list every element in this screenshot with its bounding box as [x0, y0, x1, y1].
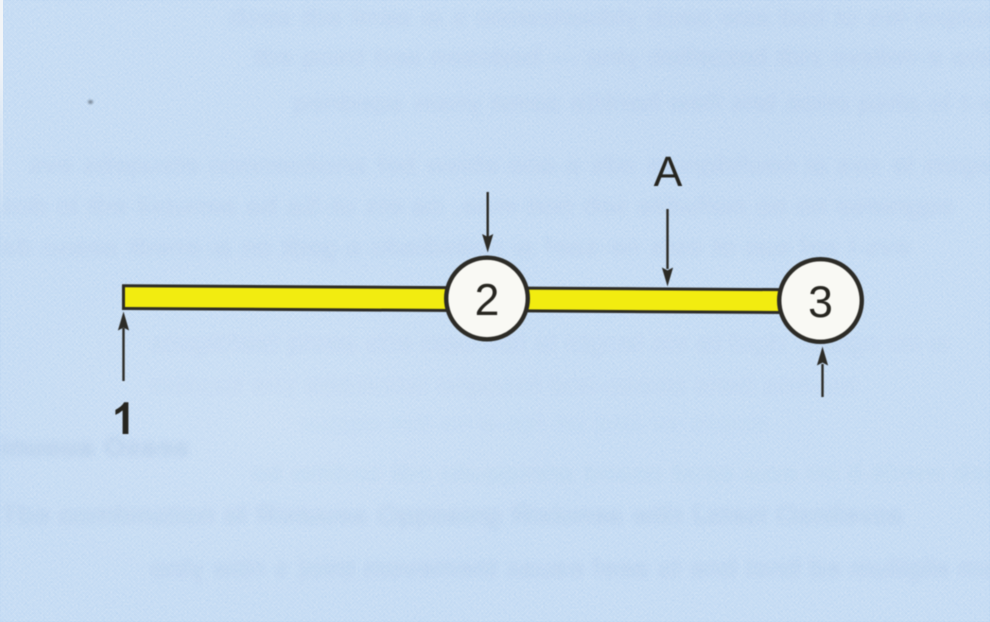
- beam (yellow bar): [124, 286, 821, 313]
- node 3 circle: [779, 259, 862, 342]
- arrow at support 1 (pointing up to left end of beam): [122, 328, 124, 381]
- arrow at support 3 (pointing up to bottom of node 3): [821, 364, 823, 397]
- svg-text:A: A: [654, 148, 683, 196]
- svg-text:2: 2: [475, 276, 500, 325]
- arrow from A to beam (pointing down): [666, 209, 668, 269]
- arrow onto node 2 (pointing down): [487, 192, 489, 237]
- svg-text:3: 3: [808, 278, 833, 327]
- node 2 circle: [446, 258, 528, 340]
- label 1: [115, 402, 128, 434]
